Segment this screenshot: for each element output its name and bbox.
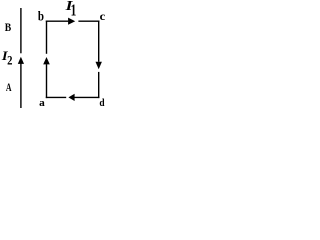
current arrow I1 (right) on top edge (68, 18, 75, 25)
svg-text:1: 1 (71, 2, 77, 21)
current arrow I2 (up) on wire AB (18, 57, 24, 64)
wire: loop right edge c-d, upper segment (98, 21, 100, 62)
current arrow (left) on bottom edge (68, 94, 74, 101)
svg-text:A: A (6, 82, 12, 95)
wire: loop right edge c-d, lower segment after arrow gap (98, 72, 100, 98)
wire: loop bottom edge d-a, right segment (75, 96, 100, 98)
wire: loop left edge a-b, lower segment (46, 64, 48, 98)
svg-text:b: b (38, 8, 44, 23)
wire: loop top edge b-c, right segment after arrow gap (78, 20, 99, 22)
wire: long straight wire through A and B (left vertical), upper segment (20, 8, 22, 53)
svg-text:2: 2 (7, 54, 13, 68)
wire: loop top edge b-c, left segment (46, 20, 69, 22)
wire: loop bottom edge d-a, left segment before arrow gap (46, 96, 66, 98)
wire: loop left edge a-b, upper segment above arrow gap (46, 21, 48, 54)
current arrow (up) on left edge (43, 57, 50, 64)
svg-text:a: a (39, 97, 45, 108)
wire: long straight wire through A and B (left vertical), lower segment (20, 63, 22, 108)
svg-text:c: c (100, 9, 106, 22)
current arrow (down) on right edge (96, 62, 102, 69)
svg-text:B: B (5, 21, 11, 34)
svg-text:d: d (99, 98, 105, 108)
